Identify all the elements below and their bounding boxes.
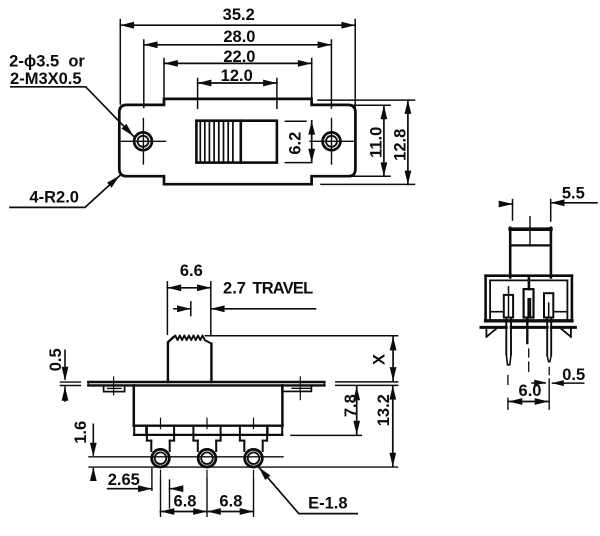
svg-text:6.2: 6.2 xyxy=(287,132,305,155)
svg-text:E-1.8: E-1.8 xyxy=(308,495,347,513)
label 4-R2.0 with leader xyxy=(10,176,120,208)
dimension 6.0 xyxy=(508,379,549,409)
svg-text:28.0: 28.0 xyxy=(223,28,255,46)
side view middle contact slot xyxy=(524,277,534,318)
dimension 6.8 left xyxy=(161,478,208,516)
svg-text:1.6: 1.6 xyxy=(72,421,90,444)
front view left foot xyxy=(134,426,146,435)
svg-text:6.8: 6.8 xyxy=(174,493,197,511)
side view middle pin xyxy=(527,319,528,372)
front view right foot xyxy=(268,426,283,435)
dimension 12.8 xyxy=(318,100,415,184)
svg-text:5.5: 5.5 xyxy=(562,184,585,202)
svg-text:2-M3X0.5: 2-M3X0.5 xyxy=(10,70,82,88)
front view mounting plate (edge) xyxy=(88,382,324,385)
side view left contact slot xyxy=(504,287,513,318)
dimension 22.0 xyxy=(164,48,312,98)
dimension 0.5 plate thickness xyxy=(47,348,80,401)
svg-text:2-ϕ3.5 or: 2-ϕ3.5 or xyxy=(9,53,85,71)
svg-text:2.7: 2.7 xyxy=(223,280,246,298)
front view terminals with solder lugs xyxy=(147,418,267,477)
front view left tab xyxy=(104,377,125,395)
svg-text:4-R2.0: 4-R2.0 xyxy=(29,188,79,206)
svg-text:6.8: 6.8 xyxy=(219,493,242,511)
dimension 5.5 xyxy=(499,184,597,221)
side view body outline xyxy=(486,276,572,321)
dimension 2.7 TRAVEL xyxy=(174,280,316,316)
right hole crosshair xyxy=(310,119,354,165)
dimension 6.6 xyxy=(167,262,210,334)
svg-text:X: X xyxy=(370,354,388,365)
dimension 6.8 right xyxy=(207,478,254,516)
side view body inner wall xyxy=(490,280,567,319)
front view body xyxy=(134,385,283,425)
dimension 11.0 xyxy=(352,105,390,176)
left mounting hole xyxy=(134,132,152,150)
svg-text:35.2: 35.2 xyxy=(223,6,255,24)
top view slot xyxy=(196,121,277,163)
front view right tab xyxy=(282,377,311,400)
front view actuator knob xyxy=(168,336,212,383)
dimension X xyxy=(206,336,398,386)
lug centre line xyxy=(89,456,283,458)
dimension 12.0 xyxy=(198,67,277,109)
side view right contact slot xyxy=(544,293,553,317)
svg-text:TRAVEL: TRAVEL xyxy=(252,280,313,298)
front view shoulder line xyxy=(134,434,282,436)
lug bottom extension line xyxy=(89,466,398,468)
svg-text:0.5: 0.5 xyxy=(562,366,585,384)
svg-text:12.8: 12.8 xyxy=(391,129,409,161)
dimension 1.6 xyxy=(72,421,97,481)
dimension 13.2 xyxy=(375,386,396,467)
right mounting hole xyxy=(323,132,341,150)
dimension 35.2 xyxy=(120,6,355,111)
top view slider knob hatch xyxy=(200,121,241,163)
svg-text:12.0: 12.0 xyxy=(221,67,253,85)
side view knob xyxy=(510,217,551,278)
dimension 6.2 xyxy=(285,121,315,163)
label 2-dia3.5 or 2-M3X0.5 with leader xyxy=(9,53,133,137)
dimension 2.65 xyxy=(108,469,184,509)
dimension 7.8 xyxy=(291,386,361,435)
side view right pin xyxy=(547,319,551,375)
svg-text:11.0: 11.0 xyxy=(368,127,386,158)
svg-text:2.65: 2.65 xyxy=(108,471,140,489)
svg-text:6.0: 6.0 xyxy=(519,382,542,400)
top view plate outline xyxy=(119,99,355,184)
dimension 28.0 xyxy=(144,28,332,108)
dimension 0.5 pin thickness xyxy=(532,366,585,386)
side view left pin xyxy=(506,319,511,385)
svg-text:6.6: 6.6 xyxy=(180,262,203,280)
side view base xyxy=(481,327,575,336)
label E-1.8 with leader xyxy=(259,467,357,513)
left hole crosshair xyxy=(121,119,166,165)
